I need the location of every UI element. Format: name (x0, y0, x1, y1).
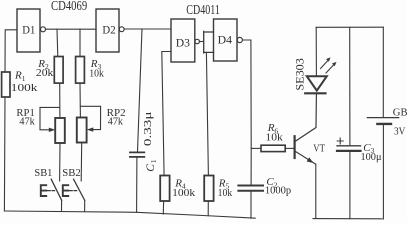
resistor R2 (54, 57, 63, 84)
D4 input bar (204, 31, 214, 53)
svg-text:47k: 47k (19, 117, 35, 128)
C3 plus sign (337, 138, 343, 144)
RP2 wiper loop (80, 106, 100, 129)
svg-text:SB2: SB2 (62, 168, 81, 179)
wire D1 output to D2 input (46, 28, 96, 30)
svg-text:D3: D3 (176, 35, 190, 49)
gate D2 (96, 9, 119, 52)
svg-text:D2: D2 (102, 23, 115, 37)
svg-text:47k: 47k (108, 117, 124, 128)
RP2 wiper arrowhead (87, 127, 94, 131)
wire RP2 bottom to SB2 (80, 143, 83, 182)
svg-text:D4: D4 (218, 32, 232, 46)
wire R2 bottom to RP1 (59, 83, 61, 118)
transistor VT base bar (294, 136, 296, 158)
svg-text:100μ: 100μ (361, 152, 382, 163)
wire C3 bottom to rail (349, 152, 351, 219)
svg-text:0.33μ: 0.33μ (143, 111, 154, 146)
wire C1 bottom to rail (136, 158, 138, 213)
LED cathode bar (305, 92, 325, 94)
RP1 wiper loop (40, 107, 60, 129)
potentiometer RP1 (55, 118, 65, 143)
wire R5 drop from D4 lower input (206, 52, 208, 175)
svg-text:R1: R1 (14, 70, 26, 83)
potentiometer RP2 (77, 118, 87, 143)
transistor VT emitter (296, 152, 316, 165)
switch SB1 actuator E (41, 185, 46, 196)
svg-text:10k: 10k (89, 69, 104, 80)
wire R2 top drop (56, 29, 59, 56)
bubble D4 output (237, 37, 242, 42)
svg-text:20k: 20k (36, 68, 54, 79)
wire D3 lower input to R4 (162, 52, 171, 176)
capacitor C2 (238, 186, 263, 191)
bubble D3 output (195, 39, 199, 43)
svg-text:GB: GB (393, 107, 407, 118)
wire C2 bottom to rail (250, 192, 252, 218)
svg-text:10k: 10k (265, 133, 283, 144)
wire emitter down to bottom right rail (315, 164, 317, 218)
wire R5 bottom to rail (207, 201, 209, 216)
LED SE303 triangle (307, 76, 327, 90)
bubble D2 output (119, 27, 124, 32)
bottom rail right section (313, 218, 383, 220)
wire battery top drop (382, 27, 384, 117)
capacitor C3 minus plate (337, 150, 361, 152)
wire SB1 to bottom rail (61, 200, 63, 211)
wire battery bottom to rail (382, 125, 384, 219)
wire R3 bottom to RP2 (79, 83, 81, 117)
LED light arrow 1 (321, 60, 329, 68)
switch SB2 actuator E (63, 185, 68, 196)
svg-text:C1: C1 (145, 159, 158, 172)
svg-text:D1: D1 (22, 23, 35, 37)
wire R4 bottom to rail (162, 201, 164, 214)
gate D4 (214, 19, 238, 61)
wire RP1 bottom to SB1 (59, 143, 61, 181)
RP1 wiper arrowhead (49, 128, 56, 132)
resistor R5 (204, 176, 213, 202)
top rail right section (316, 26, 383, 28)
switch SB1 dashed link (48, 190, 55, 192)
switch SB1 blade (51, 179, 61, 200)
wire D2 output to D3 input (124, 28, 171, 30)
LED light arrow 2 (326, 65, 334, 73)
transistor VT collector (296, 94, 317, 141)
svg-text:10k: 10k (218, 188, 233, 199)
wire D3 output to D4 inputs bar (199, 41, 203, 43)
battery GB short plate (377, 123, 391, 125)
wire left rail D1 input down to bottom rail (5, 30, 17, 72)
resistor R1 (2, 72, 10, 97)
svg-text:1000p: 1000p (265, 185, 291, 196)
switch SB2 dashed link (70, 190, 77, 192)
svg-text:CD4011: CD4011 (186, 2, 220, 17)
resistor R3 (76, 57, 85, 84)
wire top rail to LED (315, 27, 317, 76)
wire D4 output down C2 column (243, 40, 252, 148)
resistor R6 (261, 145, 285, 151)
VT emitter arrowhead (307, 157, 314, 163)
gate D1 (17, 9, 40, 52)
wire SB2 to bottom rail (84, 200, 86, 211)
wire R3 top drop (79, 29, 81, 56)
capacitor C1 (130, 152, 144, 157)
svg-text:CD4069: CD4069 (51, 0, 87, 13)
bottom rail left section (4, 211, 255, 218)
capacitor C3 plus plate (337, 145, 361, 147)
svg-text:SB1: SB1 (34, 168, 52, 179)
bubble D1 output (41, 27, 46, 32)
battery GB long plate (367, 117, 398, 119)
svg-text:100k: 100k (11, 83, 39, 94)
svg-text:SE303: SE303 (293, 58, 307, 90)
gate D3 (171, 19, 195, 62)
resistor R4 (160, 176, 169, 202)
wire C3 top drop (349, 27, 351, 145)
switch SB2 blade (74, 179, 85, 200)
svg-text:3V: 3V (394, 127, 406, 138)
wire C1 top drop from D2 output (138, 29, 143, 152)
svg-text:VT: VT (313, 143, 325, 154)
wire R6 left (251, 147, 261, 149)
svg-text:100k: 100k (172, 188, 196, 199)
wire C2 column to C2 top (250, 148, 252, 184)
wire R6 right to VT base (285, 147, 293, 149)
